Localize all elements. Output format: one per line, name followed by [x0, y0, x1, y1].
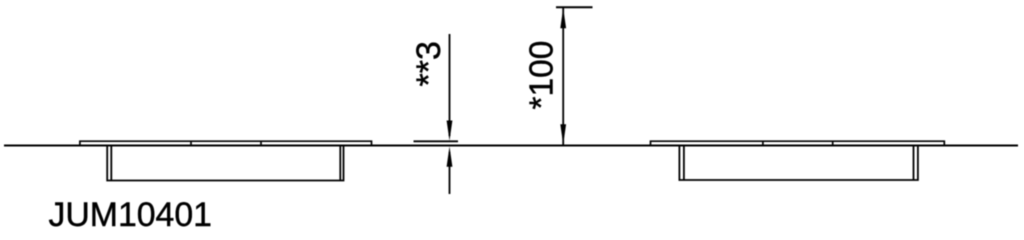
dimension *100 leader line — [562, 8, 564, 145]
svg-text:**3: **3 — [410, 41, 448, 86]
dimension **3 lower leader line — [449, 152, 451, 194]
left pit box inner wall left — [110, 146, 112, 180]
right plate plank divider 1 — [762, 141, 764, 145]
right pit box inner wall right — [913, 146, 915, 180]
left pit box inner wall right — [339, 146, 341, 180]
left pit box outer wall — [107, 146, 343, 180]
dimension *100 top tick — [556, 6, 593, 8]
right plate plank divider 2 — [832, 141, 834, 145]
left plate plank divider 1 — [190, 141, 192, 145]
right trampoline frame plate — [651, 141, 945, 145]
svg-text:JUM10401: JUM10401 — [49, 196, 212, 233]
svg-text:*100: *100 — [524, 41, 561, 110]
right pit box outer wall — [679, 146, 918, 180]
dimension **3 upper leader line — [449, 34, 451, 136]
left plate plank divider 2 — [260, 141, 262, 145]
dimension **3 lower arrowhead (up) — [447, 146, 453, 166]
dimension **3 extension line at plate top level — [414, 140, 459, 142]
dimension *100 top arrowhead (up) — [560, 8, 566, 28]
ground line — [4, 145, 1018, 147]
dimension **3 upper arrowhead (down) — [447, 121, 453, 141]
left trampoline frame plate — [80, 141, 372, 145]
right pit box inner wall left — [683, 146, 685, 180]
dimension *100 bottom arrowhead (down) — [560, 124, 566, 144]
